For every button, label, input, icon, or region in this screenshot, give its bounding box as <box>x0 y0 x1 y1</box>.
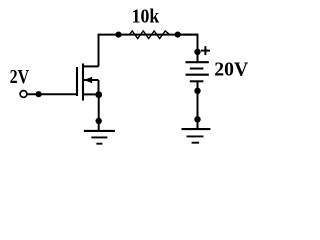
wire battery bottom <box>197 81 199 119</box>
wire to left ground <box>98 121 100 131</box>
transistor Q1 drain stub <box>83 65 99 67</box>
node battery negative dot <box>194 88 200 94</box>
wire source down <box>98 95 100 121</box>
battery V1 plus sign <box>201 46 210 55</box>
wire drain up <box>98 35 100 67</box>
node gate dot <box>36 91 42 97</box>
wire to battery <box>178 35 198 63</box>
node above right ground <box>194 116 200 122</box>
svg-text:10k: 10k <box>132 6 160 28</box>
terminal (input port, 2V source) <box>20 91 27 98</box>
transistor Q1 gate bar <box>76 67 78 96</box>
ground (left) <box>84 131 115 144</box>
node battery top dot <box>194 49 200 55</box>
transistor Q1 source stub <box>83 93 99 95</box>
transistor Q1 body arrow <box>84 77 99 95</box>
node above left ground <box>96 118 102 124</box>
wire to right ground <box>197 119 199 129</box>
ground (right) <box>182 129 211 143</box>
battery V1 plates <box>186 62 209 81</box>
node B (resistor right) <box>175 31 181 37</box>
wire top rail <box>98 34 198 36</box>
node source junction dot <box>95 91 102 98</box>
wire gate lead <box>27 93 78 95</box>
node A (resistor left) <box>115 31 121 37</box>
resistor R1 zigzag <box>125 31 175 39</box>
svg-text:20V: 20V <box>214 58 248 80</box>
svg-text:2V: 2V <box>10 66 30 88</box>
transistor Q1 channel bar <box>82 64 84 101</box>
